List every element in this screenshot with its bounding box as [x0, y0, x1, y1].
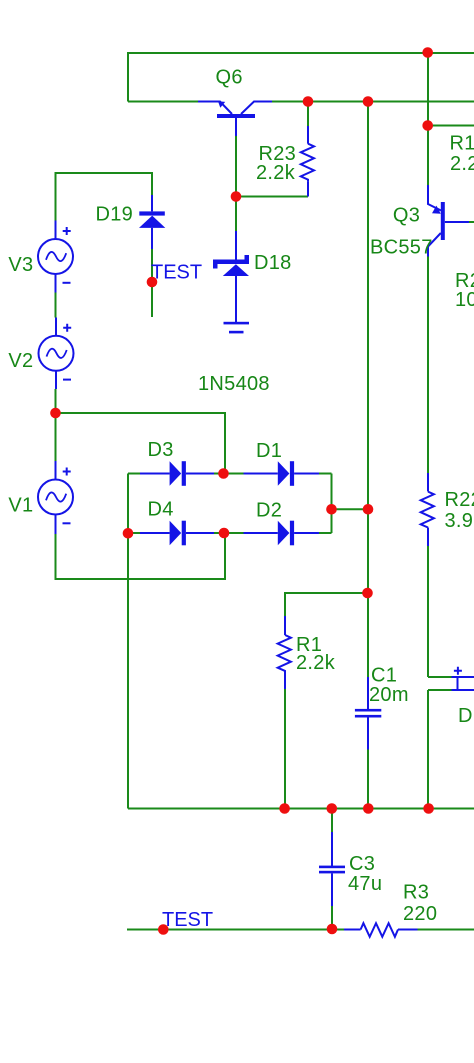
svg-text:R19: R19	[450, 133, 474, 155]
svg-text:TEST: TEST	[151, 262, 202, 284]
svg-text:V3: V3	[8, 254, 33, 276]
svg-text:2.2k: 2.2k	[450, 153, 474, 175]
svg-text:D3: D3	[148, 439, 174, 461]
svg-text:V1: V1	[8, 495, 33, 517]
svg-text:220: 220	[403, 903, 437, 925]
svg-text:V2: V2	[8, 350, 33, 372]
svg-text:D: D	[458, 705, 473, 727]
svg-text:D2: D2	[256, 500, 282, 522]
svg-text:3.9k: 3.9k	[445, 510, 474, 532]
svg-text:BC557: BC557	[370, 237, 433, 259]
svg-text:D19: D19	[96, 203, 134, 225]
svg-text:R22: R22	[445, 489, 474, 511]
svg-text:2.2k: 2.2k	[256, 162, 296, 184]
svg-text:D18: D18	[254, 252, 292, 274]
svg-text:10k: 10k	[455, 289, 474, 311]
svg-text:TEST: TEST	[162, 909, 213, 931]
svg-text:1N5408: 1N5408	[198, 373, 270, 395]
svg-text:R3: R3	[403, 882, 429, 904]
svg-text:Q6: Q6	[216, 67, 243, 89]
svg-text:D1: D1	[256, 440, 282, 462]
svg-text:20m: 20m	[369, 684, 409, 706]
svg-text:C3: C3	[349, 853, 375, 875]
svg-text:D4: D4	[148, 499, 174, 521]
svg-text:47u: 47u	[348, 873, 382, 895]
svg-text:2.2k: 2.2k	[296, 652, 336, 674]
svg-text:Q3: Q3	[393, 205, 420, 227]
